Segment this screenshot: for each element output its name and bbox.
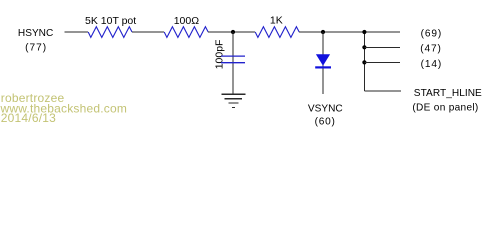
svg-text:5K 10T pot: 5K 10T pot [85,15,136,27]
svg-text:(DE on panel): (DE on panel) [412,103,478,114]
resistor R2 100Ω [164,27,208,38]
svg-text:(14): (14) [421,59,443,70]
junction node bus middle [362,45,366,49]
svg-text:(77): (77) [25,42,47,53]
svg-text:VSYNC: VSYNC [308,103,343,114]
ground symbol [221,94,245,107]
wire branch to pin 14 [364,61,400,63]
capacitor C1 100pF plates [221,56,245,63]
wire branch to pin 47 [364,46,400,48]
pin number (69) [421,28,443,39]
svg-text:100Ω: 100Ω [174,15,200,27]
junction node bus top [362,30,366,34]
value label 1K [270,15,283,27]
wire node down through capacitor to ground [232,32,234,94]
value label 100Ω [174,15,200,27]
junction node at capacitor [231,30,235,34]
wire R3 to right bus, passes diode junction [299,31,400,33]
value label 5K 10T pot [85,15,136,27]
pin number (47) [420,43,442,54]
svg-text:HSYNC: HSYNC [18,28,53,39]
value label 100pF (rotated) [214,40,226,70]
svg-text:100pF: 100pF [214,40,226,70]
wire from HSYNC to R1 [65,31,89,33]
junction node at diode [321,30,325,34]
resistor R1 5K 10T pot [88,27,132,38]
svg-text:1K: 1K [270,15,283,27]
svg-text:2014/6/13: 2014/6/13 [1,111,56,125]
vertical bus wire [363,32,365,91]
junction node bus lower [362,60,366,64]
net label HSYNC [18,28,53,39]
wire R1 to R2 [132,31,164,33]
svg-text:(69): (69) [421,28,443,39]
pin number (60) [315,117,336,128]
svg-text:(60): (60) [315,117,336,128]
watermark robertrozee [1,91,65,105]
watermark 2014/6/13 [1,111,56,125]
pin number (14) [421,59,443,70]
diode D1 (cathode up toward wire) [315,54,331,68]
svg-text:(47): (47) [420,43,442,54]
net label VSYNC [308,103,343,114]
svg-text:START_HLINE: START_HLINE [414,88,482,99]
watermark www.thebackshed.com [0,101,127,115]
wire R2 to R3 through node [208,31,255,33]
net label (DE on panel) [412,103,478,114]
net label START_HLINE [414,88,482,99]
pin number (77) [25,42,47,53]
wire diode anode stub down to VSYNC [322,32,324,94]
resistor R3 1K [255,27,299,38]
wire branch to START_HLINE [364,90,401,92]
